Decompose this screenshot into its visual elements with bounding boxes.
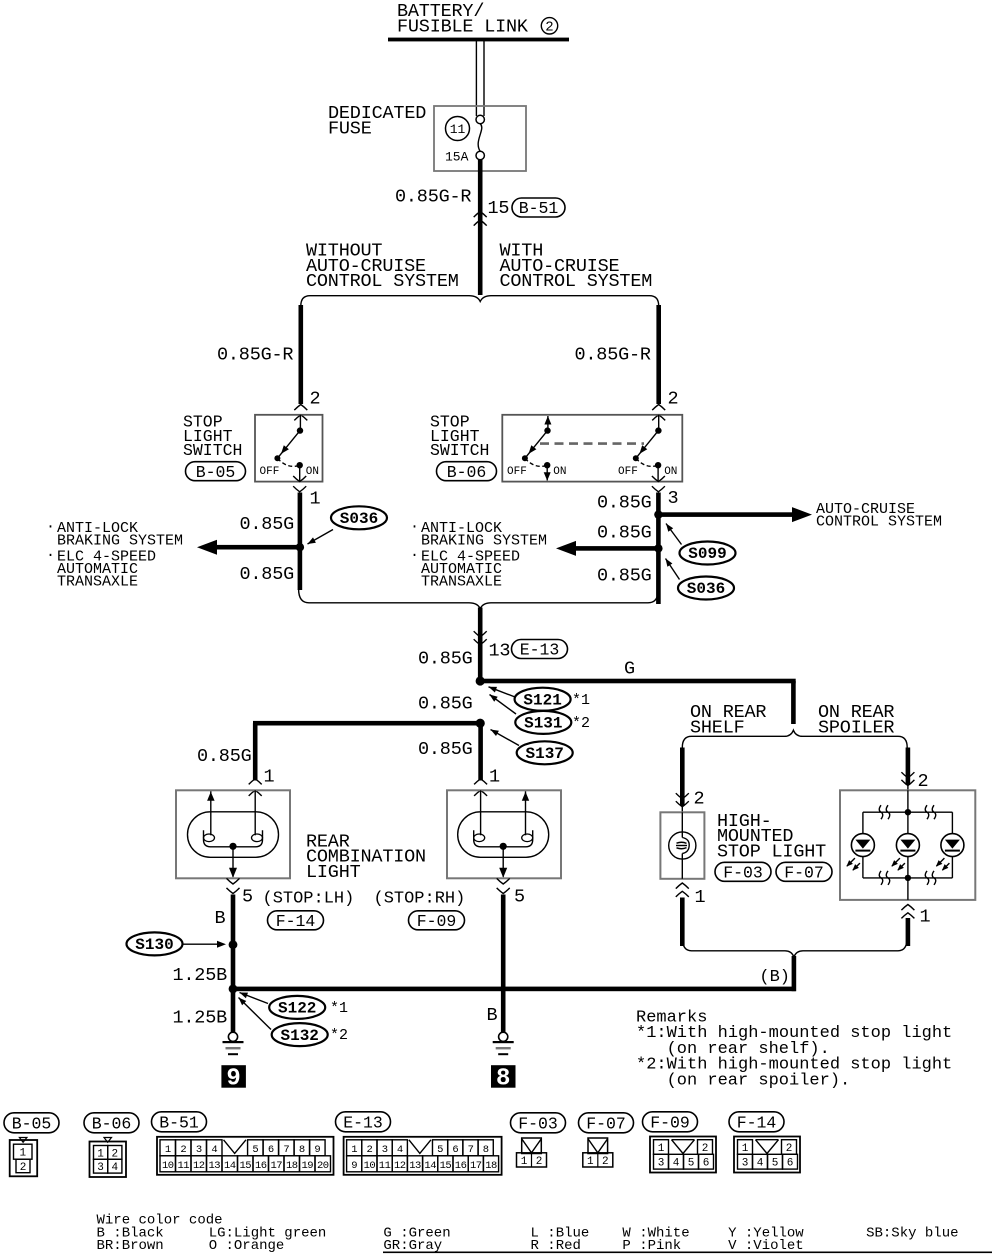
svg-text:(STOP:RH): (STOP:RH)	[374, 890, 466, 909]
svg-text:4: 4	[211, 1144, 217, 1156]
svg-text:20: 20	[317, 1160, 329, 1172]
svg-text:6: 6	[452, 1144, 458, 1156]
svg-text:CONTROL SYSTEM: CONTROL SYSTEM	[306, 271, 459, 292]
svg-text:B: B	[215, 908, 226, 929]
svg-text:15: 15	[488, 198, 510, 219]
svg-text:1: 1	[742, 1143, 749, 1155]
svg-text:5: 5	[252, 1144, 258, 1156]
fuse 11 15A box	[434, 106, 526, 171]
connector E-13 detail	[336, 1112, 502, 1175]
svg-text:O :Orange: O :Orange	[209, 1238, 285, 1254]
wire G to high-mounted stop light	[480, 679, 796, 724]
node S036 junction (left)	[296, 543, 304, 551]
svg-text:OFF: OFF	[260, 466, 280, 478]
svg-text:6: 6	[268, 1144, 274, 1156]
svg-text:3: 3	[668, 488, 679, 509]
svg-text:F-14: F-14	[737, 1113, 777, 1132]
svg-text:0.85G-R: 0.85G-R	[575, 345, 651, 366]
svg-text:9: 9	[226, 1066, 240, 1093]
svg-text:5: 5	[688, 1158, 695, 1170]
fuse element	[476, 115, 484, 159]
svg-text:17: 17	[270, 1160, 282, 1172]
connector chevrons F-03 pin 1	[676, 883, 689, 897]
svg-text:18: 18	[286, 1160, 298, 1172]
rear combination light LH (lamp)	[176, 790, 290, 878]
svg-text:3: 3	[658, 1158, 665, 1170]
svg-text:12: 12	[193, 1160, 205, 1172]
svg-text:1: 1	[695, 887, 706, 908]
svg-text:BR:Brown: BR:Brown	[97, 1238, 164, 1254]
high-mounted stop light label	[717, 811, 826, 862]
splice S137	[491, 730, 573, 765]
stop light switch B-06 box	[502, 415, 682, 482]
svg-text:11: 11	[450, 122, 466, 137]
splice S131	[490, 695, 591, 734]
wire: center down to rear light RH	[478, 723, 483, 780]
svg-text:S036: S036	[340, 510, 378, 528]
connector ref B-06	[437, 462, 497, 481]
svg-text:(STOP:LH): (STOP:LH)	[263, 890, 355, 909]
svg-text:CONTROL SYSTEM: CONTROL SYSTEM	[816, 514, 942, 531]
rear combination light RH (lamp)	[447, 790, 561, 878]
svg-text:(on rear spoiler).: (on rear spoiler).	[667, 1071, 851, 1090]
wire: spoiler branch to merge	[906, 918, 911, 946]
svg-text:S130: S130	[135, 936, 173, 954]
svg-text:8: 8	[299, 1144, 305, 1156]
svg-text:1: 1	[489, 767, 500, 788]
svg-text:5: 5	[242, 887, 253, 908]
node S036 junction (right)	[654, 544, 662, 552]
svg-text:15: 15	[440, 1160, 452, 1172]
stop light switch label (left)	[183, 413, 242, 460]
svg-text:G: G	[624, 659, 635, 680]
auto-cruise control system text	[816, 501, 942, 531]
svg-text:5: 5	[437, 1144, 443, 1156]
svg-text:·: ·	[410, 547, 419, 564]
connector chevrons E-13 pin 13	[474, 631, 487, 645]
branch header WITHOUT AUTO-CRUISE	[306, 241, 459, 292]
dedicated fuse label	[328, 103, 426, 139]
svg-text:0.85G: 0.85G	[418, 694, 473, 715]
svg-text:*2: *2	[330, 1027, 348, 1044]
connector ref B-51	[512, 198, 565, 217]
svg-text:2: 2	[702, 1143, 709, 1155]
on rear spoiler label	[818, 702, 894, 739]
splice S121	[489, 687, 591, 711]
wire: double line battery to fuse	[476, 41, 484, 116]
splice S099	[666, 524, 736, 565]
svg-text:·: ·	[46, 519, 55, 536]
svg-text:9: 9	[351, 1160, 357, 1172]
wire: shelf branch down	[680, 748, 685, 807]
svg-text:2: 2	[602, 1156, 609, 1168]
node S122/S132 junction	[229, 985, 238, 994]
wire: fuse output down to split	[478, 160, 483, 295]
svg-text:B-51: B-51	[159, 1113, 199, 1132]
connector chevrons F-14 pin 1	[249, 779, 262, 796]
svg-text:19: 19	[301, 1160, 313, 1172]
connector ref F-03	[715, 862, 771, 881]
wire: right branch 0.85G-R	[656, 305, 661, 404]
split brace	[301, 296, 659, 306]
svg-text:0.85G: 0.85G	[240, 564, 295, 585]
high-mount merge brace	[682, 938, 907, 957]
connector ref F-09	[409, 911, 465, 930]
svg-text:F-07: F-07	[784, 863, 824, 882]
svg-text:0.85G: 0.85G	[418, 649, 473, 670]
connector chevrons B-51 pin 15	[474, 212, 487, 226]
svg-text:LIGHT: LIGHT	[306, 862, 361, 883]
svg-text:1: 1	[165, 1144, 171, 1156]
remarks text	[636, 1009, 952, 1091]
svg-text:3: 3	[742, 1158, 749, 1170]
svg-text:14: 14	[424, 1160, 436, 1172]
connector ref E-13	[512, 640, 568, 659]
svg-text:·: ·	[410, 519, 419, 536]
svg-text:ON: ON	[553, 466, 566, 478]
svg-text:1: 1	[521, 1156, 528, 1168]
svg-text:12: 12	[394, 1160, 406, 1172]
svg-text:0.85G: 0.85G	[597, 566, 652, 587]
wire: (B) down to bus	[792, 956, 797, 991]
wire: LH lamp to ground 1.25B	[231, 895, 236, 1033]
high-mount split brace	[682, 730, 907, 747]
switch B-06 mechanical link (dashed)	[540, 442, 644, 445]
connector chevrons F-07 pin 1	[901, 905, 914, 919]
svg-text:2: 2	[545, 20, 553, 36]
svg-text:10: 10	[364, 1160, 376, 1172]
svg-text:4: 4	[757, 1158, 764, 1170]
wire: RH lamp to ground B	[501, 895, 506, 1033]
svg-text:1: 1	[920, 907, 931, 928]
svg-text:0.85G: 0.85G	[418, 739, 473, 760]
splice S036 (right)	[666, 559, 735, 600]
svg-text:1: 1	[97, 1148, 104, 1160]
svg-text:F-07: F-07	[586, 1114, 626, 1133]
svg-text:B-05: B-05	[196, 463, 236, 482]
connector F-07 detail	[579, 1113, 634, 1168]
node G junction (S121/S131)	[476, 676, 485, 685]
wire arrow to anti-lock braking system (mid)	[572, 546, 659, 551]
svg-text:14: 14	[224, 1160, 236, 1172]
wire: B-06 output 0.85G	[656, 493, 661, 605]
LED 3	[936, 834, 964, 871]
svg-text:2: 2	[20, 1162, 27, 1174]
svg-text:9: 9	[314, 1144, 320, 1156]
anti-lock / ELC destination list (left)	[46, 519, 183, 591]
svg-text:2: 2	[786, 1143, 793, 1155]
ground id 9	[221, 1065, 246, 1092]
svg-text:1: 1	[351, 1144, 357, 1156]
node S130 junction	[229, 940, 238, 949]
svg-text:5: 5	[772, 1158, 779, 1170]
svg-text:1: 1	[658, 1143, 665, 1155]
svg-text:18: 18	[485, 1160, 497, 1172]
svg-text:10: 10	[162, 1160, 174, 1172]
svg-text:1: 1	[310, 489, 321, 510]
svg-text:13: 13	[489, 641, 511, 662]
splice S132	[239, 998, 349, 1047]
svg-text:SPOILER: SPOILER	[818, 718, 894, 739]
connector chevrons F-03 pin 2	[676, 793, 689, 812]
svg-text:17: 17	[470, 1160, 482, 1172]
connector chevrons F-09 pin 1	[474, 779, 487, 796]
battery bus bar	[388, 38, 569, 42]
connector B-06 detail	[84, 1113, 139, 1177]
svg-text:0.85G-R: 0.85G-R	[395, 187, 471, 208]
svg-text:TRANSAXLE: TRANSAXLE	[421, 573, 502, 590]
svg-text:SB:Sky blue: SB:Sky blue	[866, 1225, 958, 1241]
svg-text:2: 2	[111, 1148, 118, 1160]
svg-text:8: 8	[483, 1144, 489, 1156]
connector F-09 detail	[643, 1112, 717, 1173]
switch B-06 right pole	[618, 415, 677, 482]
svg-text:6: 6	[787, 1158, 794, 1170]
ground id 8	[491, 1065, 516, 1092]
svg-text:*1: *1	[572, 692, 590, 709]
svg-text:13: 13	[208, 1160, 220, 1172]
svg-text:1.25B: 1.25B	[173, 965, 228, 986]
wire color code	[97, 1213, 992, 1255]
ground (RH)	[493, 1032, 514, 1055]
svg-text:B-06: B-06	[92, 1114, 132, 1133]
connector ref F-14	[268, 911, 324, 930]
svg-text:STOP LIGHT: STOP LIGHT	[717, 841, 826, 862]
high-mounted stop light LED array (spoiler)	[840, 790, 975, 900]
svg-text:S122: S122	[278, 1000, 316, 1018]
wire arrow to anti-lock braking system (left)	[213, 545, 301, 550]
svg-text:7: 7	[468, 1144, 474, 1156]
LED 2	[891, 834, 919, 871]
svg-text:CONTROL SYSTEM: CONTROL SYSTEM	[500, 271, 653, 292]
battery / fusible link label	[397, 1, 558, 37]
svg-text:2: 2	[668, 389, 679, 410]
svg-text:S137: S137	[525, 745, 563, 763]
wire to rear combination light LH	[253, 721, 480, 781]
svg-text:3: 3	[97, 1162, 104, 1174]
wire: B-05 output 0.85G	[298, 493, 303, 591]
node S137 junction	[476, 719, 485, 728]
connector chevrons B-06 pin 3	[652, 476, 665, 492]
splice S036 (left)	[308, 506, 388, 544]
ground (LH)	[223, 1032, 244, 1055]
svg-text:2: 2	[310, 389, 321, 410]
wire arrow to auto-cruise control system	[658, 512, 796, 517]
svg-text:0.85G: 0.85G	[597, 523, 652, 544]
wire: bottom B bus	[231, 987, 796, 992]
connector F-03 detail	[511, 1113, 566, 1168]
svg-text:OFF: OFF	[618, 466, 638, 478]
wire: merged 0.85G down	[478, 608, 483, 682]
connector chevrons B-06 pin 2	[652, 405, 665, 421]
node S099 junction	[654, 510, 662, 518]
svg-text:OFF: OFF	[507, 466, 527, 478]
svg-text:0.85G: 0.85G	[597, 493, 652, 514]
splice S122	[240, 993, 349, 1019]
svg-text:2: 2	[180, 1144, 186, 1156]
svg-text:S036: S036	[687, 580, 725, 598]
svg-text:3: 3	[196, 1144, 202, 1156]
svg-text:6: 6	[703, 1158, 710, 1170]
wire: left branch 0.85G-R	[299, 305, 304, 404]
svg-text:16: 16	[455, 1160, 467, 1172]
svg-text:7: 7	[283, 1144, 289, 1156]
wire: shelf branch to merge	[680, 898, 685, 947]
svg-text:(B): (B)	[759, 968, 790, 987]
svg-text:8: 8	[496, 1066, 510, 1093]
svg-text:1: 1	[264, 767, 275, 788]
svg-text:2: 2	[536, 1156, 543, 1168]
svg-text:5: 5	[514, 887, 525, 908]
svg-text:1.25B: 1.25B	[173, 1008, 228, 1029]
connector chevrons F-07 pin 2	[901, 772, 914, 790]
svg-text:F-14: F-14	[276, 912, 316, 931]
svg-text:S132: S132	[280, 1027, 318, 1045]
merge brace	[299, 589, 659, 609]
svg-text:F-03: F-03	[723, 863, 763, 882]
svg-text:ON: ON	[306, 466, 319, 478]
svg-text:0.85G-R: 0.85G-R	[217, 345, 293, 366]
connector chevrons B-05 pin 1	[293, 476, 306, 492]
switch B-06 left pole	[507, 416, 567, 481]
svg-text:S121: S121	[523, 691, 561, 709]
svg-text:F-03: F-03	[518, 1114, 558, 1133]
high-mounted stop light bulb (shelf)	[660, 812, 704, 879]
svg-text:13: 13	[409, 1160, 421, 1172]
svg-text:4: 4	[397, 1144, 403, 1156]
anti-lock / ELC destination list (mid)	[410, 519, 547, 591]
svg-text:11: 11	[177, 1160, 189, 1172]
switch B-05 internals	[260, 415, 320, 482]
svg-text:3: 3	[382, 1144, 388, 1156]
svg-text:11: 11	[379, 1160, 391, 1172]
svg-text:2: 2	[366, 1144, 372, 1156]
svg-text:B-51: B-51	[519, 199, 559, 218]
LED 1	[846, 834, 874, 871]
wire: spoiler branch down	[906, 748, 911, 786]
svg-text:E-13: E-13	[343, 1113, 383, 1132]
svg-text:15A: 15A	[445, 150, 469, 165]
svg-text:4: 4	[111, 1162, 118, 1174]
svg-text:15: 15	[239, 1160, 251, 1172]
connector ref F-07	[776, 862, 832, 881]
connector B-51 detail	[152, 1112, 334, 1175]
svg-text:B: B	[487, 1005, 498, 1026]
svg-text:*1: *1	[330, 1000, 348, 1017]
connector B-05 detail	[4, 1113, 59, 1177]
svg-text:1: 1	[587, 1156, 594, 1168]
svg-text:BRAKING SYSTEM: BRAKING SYSTEM	[57, 532, 183, 549]
rear combination light label	[306, 832, 426, 883]
svg-text:B-06: B-06	[447, 463, 487, 482]
connector ref B-05	[186, 462, 246, 481]
svg-text:B-05: B-05	[12, 1114, 52, 1133]
svg-text:·: ·	[46, 547, 55, 564]
splice S130	[127, 932, 227, 955]
stop light switch label (right)	[430, 413, 489, 460]
svg-text:*2: *2	[572, 715, 590, 732]
svg-text:F-09: F-09	[650, 1113, 690, 1132]
svg-text:2: 2	[694, 789, 705, 810]
svg-text:2: 2	[918, 771, 929, 792]
branch header WITH AUTO-CRUISE	[500, 241, 653, 292]
svg-text:SWITCH: SWITCH	[183, 441, 242, 460]
connector chevrons B-05 pin 2	[294, 405, 307, 421]
svg-text:S131: S131	[524, 715, 562, 733]
svg-text:4: 4	[673, 1158, 680, 1170]
connector chevrons F-14 pin 5	[227, 878, 240, 893]
on rear shelf label	[690, 702, 766, 739]
svg-text:BRAKING SYSTEM: BRAKING SYSTEM	[421, 532, 547, 549]
svg-text:16: 16	[255, 1160, 267, 1172]
svg-text:SHELF: SHELF	[690, 718, 745, 739]
svg-text:TRANSAXLE: TRANSAXLE	[57, 573, 138, 590]
stop light switch B-05 box	[255, 415, 323, 482]
svg-text:SWITCH: SWITCH	[430, 441, 489, 460]
svg-text:0.85G: 0.85G	[240, 514, 295, 535]
svg-text:FUSIBLE LINK: FUSIBLE LINK	[397, 16, 529, 37]
svg-text:ON: ON	[664, 466, 677, 478]
svg-text:F-09: F-09	[417, 912, 457, 931]
svg-text:0.85G: 0.85G	[197, 746, 252, 767]
connector chevrons F-09 pin 5	[497, 878, 510, 893]
svg-text:1: 1	[19, 1148, 26, 1160]
connector F-14 detail	[729, 1112, 800, 1173]
svg-text:S099: S099	[688, 545, 726, 563]
svg-text:E-13: E-13	[520, 641, 560, 660]
svg-text:FUSE: FUSE	[328, 118, 372, 139]
